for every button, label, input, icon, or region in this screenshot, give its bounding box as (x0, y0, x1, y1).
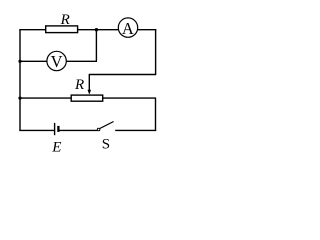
wire: voltmeter riser vertical (95, 30, 97, 62)
node: junction dot between R and A (95, 28, 98, 31)
rheostat R2 body (71, 95, 103, 101)
resistor R1 (fixed) (46, 26, 78, 33)
voltmeter U-V (47, 51, 66, 70)
wire: bottom left to battery (19, 129, 54, 131)
wire: switch to bottom-right corner (115, 129, 156, 131)
battery E: long plate (54, 123, 56, 135)
wire: left vertical (19, 29, 21, 131)
wire: ammeter to top-right corner (138, 29, 157, 31)
svg-text:A: A (122, 19, 134, 38)
svg-text:V: V (51, 52, 63, 71)
wire: right vertical lower (155, 98, 157, 131)
svg-text:E: E (51, 139, 61, 155)
wire: resistor to ammeter (78, 29, 119, 31)
wire: left to rheostat (20, 97, 71, 99)
wire: left to voltmeter (20, 60, 47, 62)
svg-text:R: R (74, 77, 84, 93)
node: junction dot left (rheostat tap) (18, 97, 21, 100)
wire: right vertical upper (155, 29, 157, 74)
wiper arrow of rheostat (88, 74, 90, 90)
switch S pivot (97, 128, 100, 131)
node: junction dot left (voltmeter tap) (18, 60, 21, 63)
wire: voltmeter to riser (66, 60, 97, 62)
switch S lever (100, 122, 114, 129)
wire: top left horizontal (19, 29, 45, 31)
battery E: short thick plate (57, 126, 59, 132)
wire: wiper horizontal (89, 74, 156, 76)
svg-text:S: S (102, 136, 110, 152)
wire: rheostat to right (103, 97, 156, 99)
wire: battery to switch (60, 129, 98, 131)
svg-text:R: R (60, 12, 70, 28)
ammeter U-A (118, 18, 137, 37)
